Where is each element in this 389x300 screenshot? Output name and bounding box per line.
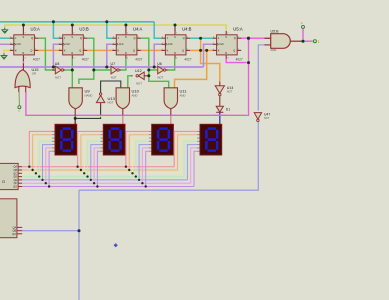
svg-text:4027: 4027 bbox=[184, 57, 191, 61]
svg-text:QG: QG bbox=[13, 186, 17, 189]
svg-text:D1: D1 bbox=[226, 107, 230, 111]
svg-text:U7: U7 bbox=[111, 62, 116, 66]
svg-text:U14: U14 bbox=[227, 86, 234, 90]
svg-text:NOT: NOT bbox=[136, 82, 142, 86]
svg-text:U8: U8 bbox=[55, 62, 60, 66]
svg-text:4027: 4027 bbox=[33, 57, 40, 61]
svg-text:AND: AND bbox=[180, 94, 186, 98]
svg-text:NOT: NOT bbox=[111, 76, 117, 80]
svg-text:U4:B: U4:B bbox=[182, 27, 192, 32]
svg-text:U3:B: U3:B bbox=[79, 27, 89, 32]
svg-text:U5:B: U5:B bbox=[271, 30, 280, 34]
svg-text:NOT: NOT bbox=[264, 117, 270, 120]
svg-text:O: O bbox=[2, 179, 5, 184]
svg-text:NOT: NOT bbox=[227, 90, 233, 94]
svg-text:U3:A: U3:A bbox=[31, 27, 41, 32]
svg-text:U5:A: U5:A bbox=[233, 27, 243, 32]
svg-text:NAND: NAND bbox=[85, 94, 93, 98]
svg-text:AND: AND bbox=[132, 94, 138, 98]
svg-text:U6: U6 bbox=[157, 62, 162, 66]
svg-text:NOT: NOT bbox=[55, 76, 61, 80]
svg-text:4027: 4027 bbox=[236, 57, 243, 61]
svg-text:OR: OR bbox=[32, 72, 36, 76]
svg-text:QC: QC bbox=[12, 232, 16, 236]
svg-text:NOT: NOT bbox=[108, 100, 114, 104]
svg-text:NOT: NOT bbox=[157, 76, 163, 80]
svg-text:U4:A: U4:A bbox=[133, 27, 143, 32]
svg-text:U12: U12 bbox=[135, 69, 142, 73]
svg-text:AND: AND bbox=[271, 48, 277, 52]
svg-text:4027: 4027 bbox=[82, 57, 89, 61]
svg-text:4027: 4027 bbox=[135, 57, 142, 61]
